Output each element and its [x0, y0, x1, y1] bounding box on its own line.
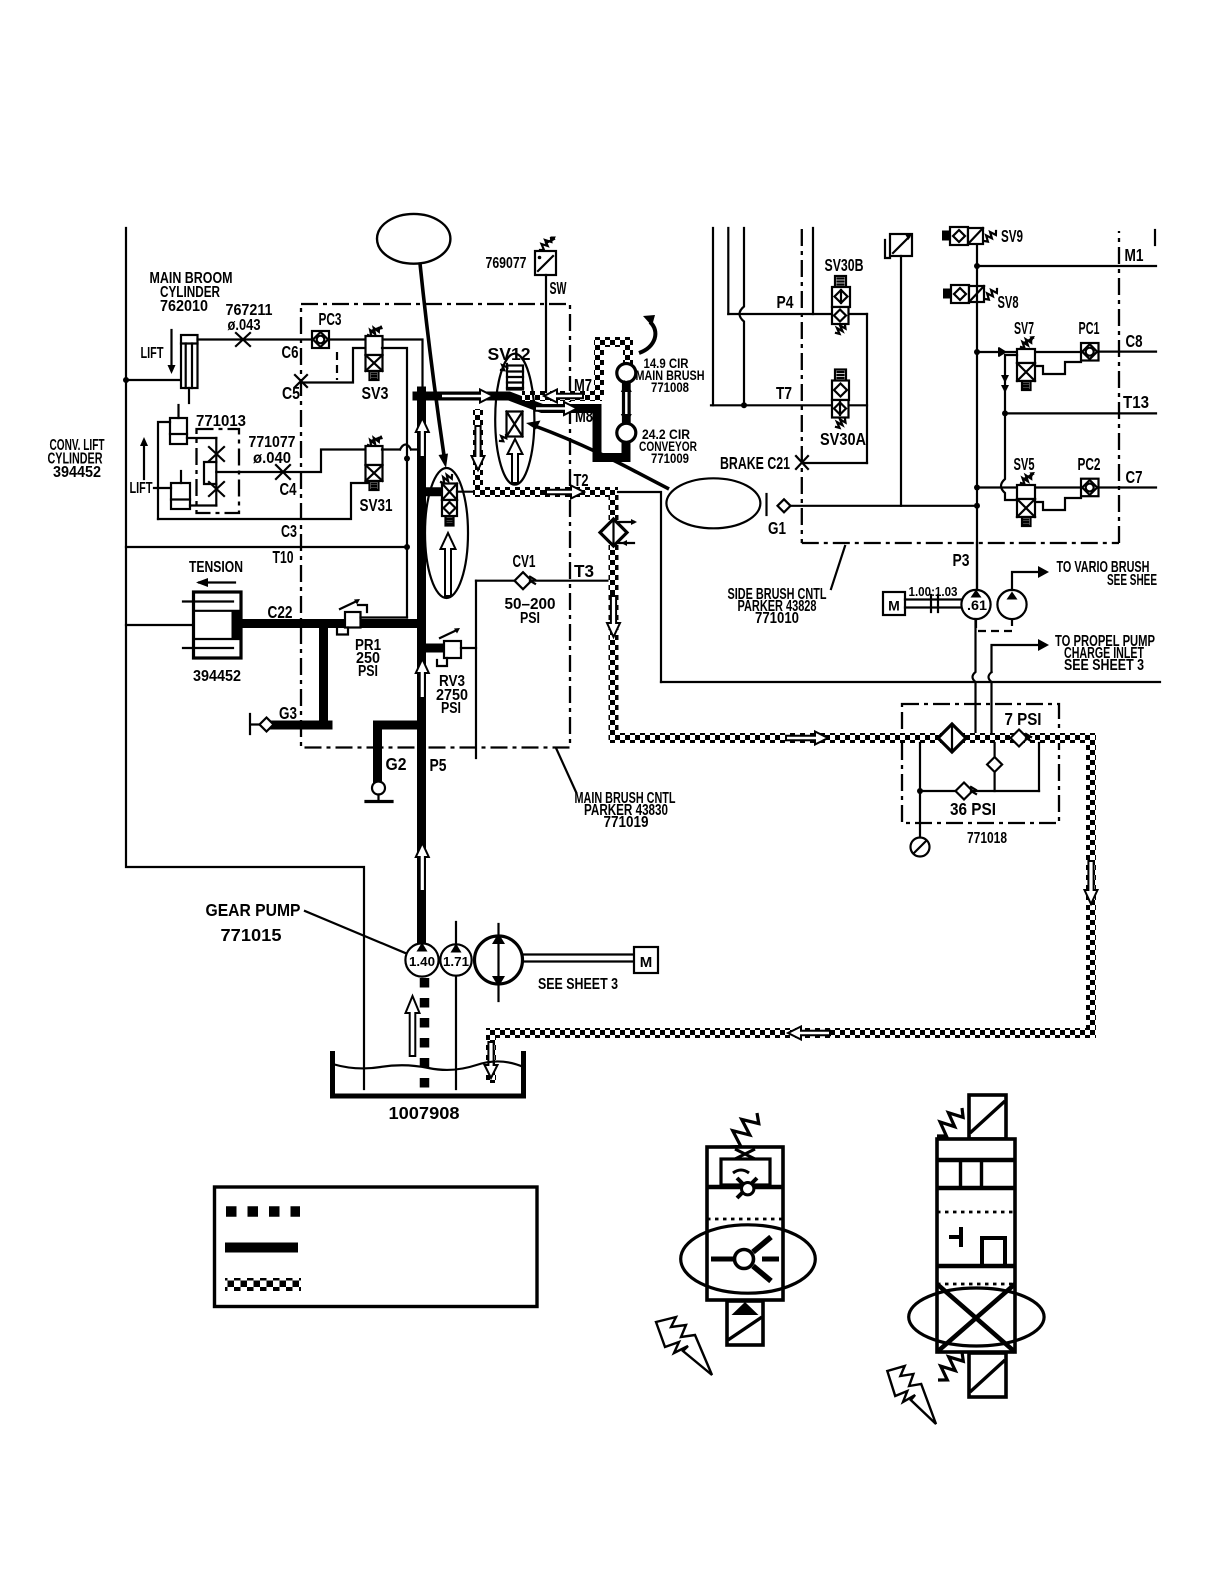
flow arrow left M7 — [544, 390, 583, 403]
svg-text:771013: 771013 — [196, 413, 246, 430]
shaft motors — [624, 382, 630, 424]
pump 1.40 — [405, 943, 438, 976]
return checker bottom horizontal — [486, 1028, 1096, 1038]
wire M1 line — [977, 265, 1156, 267]
wire C4 line — [239, 450, 366, 473]
enlarged valve 1 solenoid — [727, 1301, 763, 1345]
svg-text:PC2: PC2 — [1078, 454, 1101, 474]
valve RV3 2750 PSI — [444, 641, 461, 658]
svg-text:1.40: 1.40 — [409, 954, 435, 969]
wire SV30 right vertical — [866, 314, 868, 463]
enclosure 771018 box — [902, 704, 1059, 823]
flow arrow up 1 — [416, 418, 429, 457]
return checker filter drop — [609, 492, 619, 733]
svg-text:T2: T2 — [574, 470, 589, 490]
wire lift line — [154, 487, 171, 489]
wire cyl1 right — [187, 437, 216, 439]
wire PC3 to SV3 top — [329, 340, 423, 392]
svg-text:36 PSI: 36 PSI — [950, 799, 996, 819]
callout ellipse SV12 — [495, 354, 534, 485]
pilot dashed PC3 — [336, 352, 338, 380]
wire G2 thick — [378, 725, 422, 783]
wire top vertical 1 — [712, 228, 714, 405]
motor main brush 771008 — [617, 364, 636, 383]
enlarged valve 1 body — [707, 1147, 783, 1300]
svg-text:394452: 394452 — [193, 668, 241, 685]
legend box — [215, 1187, 538, 1307]
svg-text:T7: T7 — [776, 383, 792, 403]
filter 771016 — [600, 519, 627, 546]
svg-text:TENSION: TENSION — [189, 559, 243, 576]
enclosure 771013 box — [197, 429, 240, 513]
pump propel variable — [475, 936, 523, 984]
filter 771018 — [938, 724, 966, 752]
check valve PC2 — [1081, 479, 1099, 497]
needle valves 771013 — [215, 438, 217, 506]
valve SV5 — [1021, 475, 1031, 484]
wire propel elbow — [992, 645, 1039, 672]
svg-text:SV30B: SV30B — [825, 255, 864, 275]
valve SV12 — [507, 366, 523, 390]
wire vario elbow — [1012, 572, 1038, 590]
svg-text:C5: C5 — [282, 383, 300, 403]
pump housing dashed — [976, 620, 1012, 631]
motor conveyor 771009 — [617, 423, 636, 442]
leader side brush cntl — [831, 546, 845, 589]
svg-text:M: M — [888, 598, 900, 614]
svg-text:C22: C22 — [268, 602, 293, 622]
wire main pressure thick vertical — [417, 391, 426, 943]
wire CV1 line — [476, 580, 608, 582]
lightning bolt 1 — [656, 1317, 712, 1375]
svg-text:SW: SW — [550, 278, 567, 298]
wire P4 line — [728, 313, 867, 315]
svg-text:M: M — [640, 954, 653, 971]
wire top vertical 3 with hop — [740, 228, 745, 405]
enlarged valve 1 spring — [730, 1113, 759, 1147]
leader G1 ellipse — [535, 426, 669, 489]
svg-text:771019: 771019 — [604, 814, 649, 831]
svg-text:T13: T13 — [1123, 392, 1149, 412]
enlarged valve 2 top solenoid — [969, 1095, 1006, 1139]
wire CV1 vertical — [475, 581, 477, 758]
check valve PC3 — [312, 331, 329, 348]
check valve PC1 — [1081, 343, 1099, 361]
flow arrow down right checker — [1085, 861, 1098, 904]
lightning bolt 2 — [887, 1366, 936, 1424]
enclosure side brush cntl box — [802, 229, 1119, 543]
flow arrow down tank checker — [485, 1042, 498, 1078]
valve SV7 — [1021, 339, 1031, 348]
enlarged valve 1 check — [711, 1257, 735, 1262]
flow arrow up suction — [406, 996, 420, 1056]
flow arrow down checker left — [472, 426, 485, 470]
flow arrow right T2 — [546, 486, 584, 499]
wire RV3 thick stub — [422, 644, 445, 653]
svg-text:GEAR PUMP: GEAR PUMP — [206, 900, 301, 920]
svg-text:771008: 771008 — [651, 380, 689, 395]
wire border to cylinder — [126, 379, 181, 381]
wire drop valve thick stub — [422, 487, 443, 496]
wire G3 thick — [273, 721, 328, 730]
svg-text:PC3: PC3 — [319, 309, 342, 329]
flow arrow right M8 — [535, 402, 577, 415]
check valve 36 PSI — [956, 783, 973, 800]
svg-text:C4: C4 — [280, 479, 297, 499]
shaft M to pump — [905, 600, 961, 608]
return checker M7 vertical — [594, 337, 604, 397]
svg-text:C6: C6 — [282, 342, 299, 362]
svg-text:SV7: SV7 — [1014, 318, 1034, 338]
svg-text:ø.040: ø.040 — [253, 450, 291, 467]
wire 36 right up — [1038, 743, 1040, 791]
svg-text:SV8: SV8 — [998, 292, 1019, 312]
valve SV3 — [368, 328, 379, 337]
svg-text:PSI: PSI — [358, 663, 378, 680]
orifice brake C21 — [796, 456, 808, 469]
check diamond mid — [987, 757, 1002, 772]
leader top ellipse — [420, 264, 445, 459]
motor vario brush — [997, 590, 1026, 619]
wire SV3 left pilot — [303, 348, 366, 383]
flow arrow up 3 — [416, 843, 429, 891]
wire C6 line — [198, 338, 313, 340]
wire pump 171 suction — [455, 922, 457, 1089]
wire top vertical 4 — [812, 228, 814, 314]
valve SV30B — [835, 276, 846, 287]
wire cyl2 right — [190, 504, 216, 506]
flow arrow up 2 — [416, 659, 429, 698]
wire RV3 right — [461, 647, 476, 649]
svg-text:1.00:1.03: 1.00:1.03 — [909, 585, 958, 599]
wire SV7 left drop — [1005, 355, 1017, 413]
enclosure main brush cntl box — [301, 304, 570, 748]
tank 1007908 — [333, 1051, 524, 1096]
check valve 7 PSI — [1011, 730, 1028, 747]
svg-text:BRAKE C21: BRAKE C21 — [720, 453, 790, 473]
wire propel down jog — [989, 672, 992, 736]
legend pilot line sample — [226, 1206, 300, 1217]
svg-text:T10: T10 — [273, 547, 294, 567]
wire C22 thick — [240, 619, 422, 628]
wire T2 to long line — [618, 492, 661, 682]
valve PR1 250 PSI — [345, 612, 361, 628]
wire pump down jog — [973, 619, 976, 738]
return checker T2 — [473, 487, 618, 497]
enlarged valve 2 bottom solenoid — [969, 1353, 1006, 1397]
wire T7 line — [711, 404, 867, 406]
svg-text:SEE SHEE: SEE SHEE — [1107, 572, 1157, 589]
valve SV30A — [835, 370, 846, 381]
wire cyl1 left — [158, 422, 170, 519]
svg-text:SV5: SV5 — [1014, 454, 1035, 474]
svg-text:771009: 771009 — [651, 451, 689, 466]
rotation arrow — [639, 322, 655, 353]
flow arrow up drop valve — [441, 533, 456, 596]
svg-text:G1: G1 — [768, 518, 786, 538]
svg-text:7 PSI: 7 PSI — [1005, 709, 1042, 729]
svg-text:.61: .61 — [967, 598, 988, 613]
callout ellipse top — [377, 214, 450, 264]
port G3 — [250, 714, 260, 734]
svg-text:M1: M1 — [1125, 245, 1144, 265]
svg-text:P5: P5 — [430, 755, 447, 775]
svg-text:771077: 771077 — [249, 434, 296, 451]
orifice 767211 — [236, 333, 250, 346]
valve main brush drop — [441, 475, 452, 484]
valve SV8 — [943, 289, 951, 299]
leader gear pump — [305, 911, 410, 955]
cylinder conv lift lower — [171, 483, 190, 509]
motor M side brush — [883, 592, 905, 615]
wire long return line — [661, 681, 1160, 683]
wire P3 vertical — [976, 543, 978, 590]
flow arrow right top band — [441, 390, 493, 403]
gauge — [911, 838, 930, 857]
check valve CV1 — [515, 572, 532, 589]
valve SV9 — [942, 231, 950, 241]
wire top vertical 2 — [727, 228, 729, 314]
svg-text:SEE SHEET 3: SEE SHEET 3 — [1064, 657, 1144, 674]
svg-text:769077: 769077 — [486, 255, 527, 272]
svg-text:LIFT: LIFT — [141, 345, 164, 362]
return checker right vertical — [1086, 733, 1096, 1038]
wire 36 psi drop — [993, 743, 995, 791]
flow arrow down filter drop — [607, 596, 620, 637]
svg-text:M8: M8 — [575, 406, 593, 426]
port G2 — [372, 782, 385, 795]
svg-text:C8: C8 — [1126, 331, 1143, 351]
svg-text:SV31: SV31 — [360, 495, 393, 515]
wire C8 feed — [977, 351, 1017, 353]
orifice 771077 — [276, 465, 290, 479]
pressure switch 769077 — [535, 251, 556, 275]
cylinder conv lift upper — [170, 418, 187, 444]
enlarged valve 2 top spring — [937, 1108, 963, 1136]
wire SW line — [545, 275, 547, 392]
svg-text:SEE SHEET 3: SEE SHEET 3 — [538, 976, 618, 993]
wire sheet edge tick — [1154, 230, 1156, 245]
svg-text:P4: P4 — [777, 292, 794, 312]
svg-text:PC1: PC1 — [1079, 318, 1100, 338]
wire T10 line — [126, 546, 407, 548]
enlarged valve 2 bottom spring — [938, 1352, 963, 1380]
wire drop valve right — [457, 491, 474, 493]
enlarged valve 1 ellipse — [681, 1225, 816, 1293]
svg-text:771018: 771018 — [967, 830, 1007, 847]
callout ellipse G1 — [666, 478, 760, 528]
svg-text:SV30A: SV30A — [820, 429, 866, 449]
wire variable orifice down — [900, 256, 902, 506]
suction dashed thick — [420, 978, 430, 1088]
component variable orifice — [890, 234, 912, 256]
return checker vertical left — [473, 409, 483, 492]
return checker main horizontal — [609, 733, 1096, 743]
svg-text:C3: C3 — [281, 521, 297, 541]
svg-text:SV9: SV9 — [1001, 226, 1023, 246]
wire C8 line — [1035, 351, 1156, 354]
svg-text:762010: 762010 — [160, 298, 208, 315]
wire main pressure thick top band — [417, 396, 626, 458]
legend pressure line sample — [225, 1243, 298, 1253]
legend return line sample — [225, 1278, 301, 1291]
wire SV31 right — [382, 448, 400, 450]
enlarged valve 2 ellipse — [909, 1288, 1044, 1346]
svg-text:771015: 771015 — [221, 925, 282, 945]
svg-text:1007908: 1007908 — [389, 1103, 460, 1123]
flow arrow left bottom checker — [788, 1027, 830, 1040]
svg-text:ø.043: ø.043 — [228, 317, 261, 334]
port G1 — [765, 494, 767, 515]
wire G1 line — [791, 505, 978, 507]
wire gauge drop — [919, 743, 921, 838]
svg-text:G3: G3 — [279, 703, 297, 723]
svg-text:1.71: 1.71 — [443, 954, 469, 969]
cylinder tension 394452 — [194, 592, 242, 658]
wire border to tension — [126, 624, 196, 626]
shaft propel to M — [523, 955, 635, 962]
return checker M7 band — [522, 391, 602, 401]
svg-text:771010: 771010 — [755, 610, 799, 627]
flow arrow right checker — [786, 732, 828, 745]
wire PR1 right — [361, 616, 408, 618]
wire C7 line — [977, 486, 1156, 488]
return checker M7 right leg — [623, 337, 633, 365]
pump 0.61 — [961, 590, 990, 619]
svg-text:394452: 394452 — [53, 464, 101, 481]
wire C22 drop thick — [319, 624, 328, 726]
svg-text:C7: C7 — [1126, 467, 1143, 487]
flow arrow up SV12 — [508, 439, 523, 483]
enlarged valve 2 body — [937, 1139, 1015, 1352]
valve SV31 — [368, 438, 379, 447]
cylinder main broom 762010 — [181, 335, 198, 388]
wire SV9 SV8 vertical — [976, 245, 978, 589]
wire T13 line — [1005, 412, 1156, 414]
return checker M7 top — [594, 337, 633, 347]
svg-text:T3: T3 — [574, 561, 594, 581]
return checker tank drop — [486, 1028, 496, 1083]
leader main brush cntl — [556, 748, 576, 792]
wire SV3 right — [382, 348, 407, 618]
svg-text:P3: P3 — [953, 550, 970, 570]
svg-text:LIFT: LIFT — [130, 480, 153, 497]
wire 36 psi line — [920, 790, 1039, 792]
wire C3 line — [158, 483, 370, 519]
svg-text:PSI: PSI — [441, 700, 461, 717]
orifice C5 — [295, 375, 307, 387]
wire left border — [126, 228, 364, 1089]
svg-text:CV1: CV1 — [513, 551, 536, 571]
svg-text:SV3: SV3 — [362, 383, 389, 403]
wire T13 to SV5 — [1001, 413, 1017, 500]
svg-text:G2: G2 — [386, 754, 407, 774]
svg-text:PSI: PSI — [520, 610, 540, 627]
wire SV7 stair — [1035, 362, 1081, 374]
motor M propel — [634, 947, 658, 973]
callout ellipse drop valve — [425, 468, 468, 598]
wire brake line — [802, 462, 867, 464]
pump 1.71 — [440, 944, 471, 975]
wire SV5 stair — [1035, 498, 1081, 510]
